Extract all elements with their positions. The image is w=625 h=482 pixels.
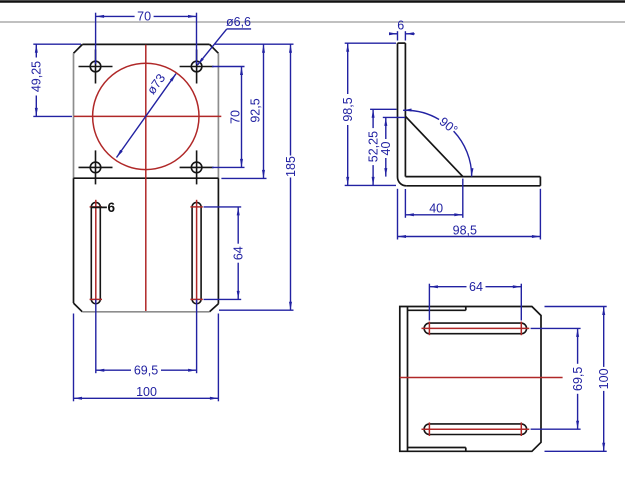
svg-text:69,5: 69,5 xyxy=(571,367,585,391)
side view gusset diagonal xyxy=(405,116,462,176)
front view top edge xyxy=(82,43,209,45)
dimension 92,5 vertical right xyxy=(215,44,294,178)
dimension 49,25 vertical left xyxy=(30,44,81,116)
side view right end edge xyxy=(539,177,541,186)
side view outer bend radius xyxy=(398,177,407,186)
bottom view top slot outline xyxy=(424,323,526,334)
front view top-right chamfer xyxy=(210,44,219,53)
dimension 64 horizontal bottom view xyxy=(429,280,521,321)
front view vertical centerline xyxy=(145,45,147,311)
front view left edge upper xyxy=(73,53,75,178)
dimension 185 vertical right xyxy=(219,44,298,310)
side view inner edge vertical xyxy=(404,43,406,177)
front view mounting hole top-right xyxy=(180,50,214,84)
svg-text:100: 100 xyxy=(597,368,611,389)
svg-text:92,5: 92,5 xyxy=(248,98,262,122)
dimension 98,5 vertical side xyxy=(341,43,396,185)
bottom view bottom slot centerline xyxy=(422,422,530,436)
svg-text:64: 64 xyxy=(232,246,246,260)
svg-text:ø6,6: ø6,6 xyxy=(226,15,251,29)
front view right edge lower xyxy=(217,178,219,304)
svg-text:69,5: 69,5 xyxy=(134,364,158,378)
bottom view outline xyxy=(400,307,541,452)
dimension 40 horizontal side xyxy=(405,179,462,218)
front view bottom edge xyxy=(82,311,209,313)
front view right slot outline xyxy=(192,202,201,303)
svg-text:40: 40 xyxy=(429,202,443,216)
svg-text:64: 64 xyxy=(469,280,483,294)
svg-text:98,5: 98,5 xyxy=(341,97,355,121)
svg-text:40: 40 xyxy=(379,142,393,156)
svg-text:6: 6 xyxy=(108,200,116,215)
bottom view web edge line xyxy=(407,307,409,452)
bottom view bottom notch xyxy=(408,448,466,452)
svg-text:185: 185 xyxy=(284,156,298,177)
bottom view top slot centerline xyxy=(422,322,530,336)
drawing frame top border xyxy=(0,0,625,3)
side view top surface edge xyxy=(405,176,540,178)
front view bottom-left chamfer xyxy=(74,303,83,312)
dimension 98,5 horizontal side xyxy=(398,189,541,240)
front view left slot centerline xyxy=(90,200,102,305)
dimension 6 thickness top xyxy=(389,19,415,41)
svg-text:70: 70 xyxy=(137,10,151,24)
front view right slot centerline xyxy=(190,200,202,305)
front view bottom-right chamfer xyxy=(210,304,219,312)
side view leg top edge xyxy=(398,42,406,44)
bottom view top notch xyxy=(408,307,466,311)
front view bend step line xyxy=(74,177,219,179)
svg-text:ø73: ø73 xyxy=(144,71,168,97)
front view right edge upper xyxy=(217,53,219,178)
dimension 100 vertical bottom view xyxy=(545,307,612,452)
front view slot width label 6 xyxy=(91,200,116,215)
svg-text:98,5: 98,5 xyxy=(453,223,477,237)
svg-text:49,25: 49,25 xyxy=(30,61,44,92)
dimension 70 horizontal top xyxy=(96,10,197,64)
front view mounting hole top-left xyxy=(79,50,113,84)
drawing frame inner border xyxy=(0,21,625,23)
side view outer left edge xyxy=(397,43,399,177)
angle arc 90 degrees xyxy=(403,109,473,177)
dimension 100 horizontal front xyxy=(74,314,219,402)
leader and label D6,6 xyxy=(197,15,251,65)
dimension 64 vertical front slots xyxy=(204,207,246,300)
bottom view main centerline xyxy=(400,377,563,379)
svg-text:6: 6 xyxy=(397,19,404,33)
svg-text:100: 100 xyxy=(136,385,157,399)
dimension 69,5 vertical bottom view xyxy=(531,328,585,429)
svg-text:70: 70 xyxy=(229,110,243,124)
front view left edge lower xyxy=(73,178,75,303)
front view mounting hole bottom-left xyxy=(79,150,113,184)
front view left slot outline xyxy=(91,202,100,303)
bottom view bottom slot outline xyxy=(424,424,526,435)
side view bottom edge xyxy=(406,185,540,187)
dimension 69,5 horizontal front xyxy=(96,299,197,377)
dimension 52,25 vertical side xyxy=(366,109,396,185)
front view horizontal centerline xyxy=(74,115,222,117)
dimension 40 vertical side xyxy=(379,117,405,176)
front view top-left chamfer xyxy=(74,44,83,53)
front view bore circle D73 xyxy=(93,63,199,169)
dimension 70 vertical right xyxy=(212,67,245,168)
front view mounting hole bottom-right xyxy=(180,150,214,184)
dimension D73 diagonal leader xyxy=(117,71,177,157)
